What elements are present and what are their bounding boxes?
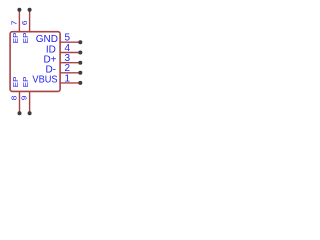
pin 7 end dot xyxy=(17,8,21,12)
svg-text:7: 7 xyxy=(10,21,19,26)
svg-text:9: 9 xyxy=(20,96,29,101)
pin 4 end dot xyxy=(78,51,82,55)
pin 5 end dot xyxy=(78,40,82,44)
wire pin 9 xyxy=(29,91,31,111)
pin 1 VBUS xyxy=(32,73,82,85)
svg-text:6: 6 xyxy=(20,21,29,26)
pin 9 EP bottom-right xyxy=(20,76,32,115)
pin 9 end dot xyxy=(28,111,32,115)
wire pin 4 xyxy=(60,52,78,54)
pin 4 ID xyxy=(46,43,82,55)
pin 2 D- xyxy=(45,63,82,75)
pin 8 end dot xyxy=(18,111,22,115)
svg-text:EP: EP xyxy=(23,32,30,43)
svg-text:EP: EP xyxy=(23,76,30,87)
wire pin 3 xyxy=(60,62,78,64)
pin 3 D+ xyxy=(43,53,82,65)
pin 6 EP top-right xyxy=(20,8,32,43)
pin 6 end dot xyxy=(28,8,32,12)
svg-text:8: 8 xyxy=(9,96,18,101)
svg-text:EP: EP xyxy=(13,76,20,87)
pin 2 end dot xyxy=(78,71,82,75)
svg-text:EP: EP xyxy=(13,32,20,43)
wire pin 5 xyxy=(60,41,78,43)
wire pin 8 xyxy=(19,91,21,111)
svg-text:1: 1 xyxy=(65,73,71,84)
connector body xyxy=(10,32,60,92)
wire pin 1 xyxy=(60,82,78,84)
pin 7 EP top-left xyxy=(10,8,22,43)
wire pin 6 xyxy=(29,11,31,32)
pin 1 end dot xyxy=(78,81,82,85)
svg-text:VBUS: VBUS xyxy=(32,75,58,86)
pin 8 EP bottom-left xyxy=(9,76,21,115)
pin 3 end dot xyxy=(78,61,82,65)
wire pin 7 xyxy=(18,11,20,32)
pin 5 GND xyxy=(36,33,83,45)
wire pin 2 xyxy=(60,72,78,74)
